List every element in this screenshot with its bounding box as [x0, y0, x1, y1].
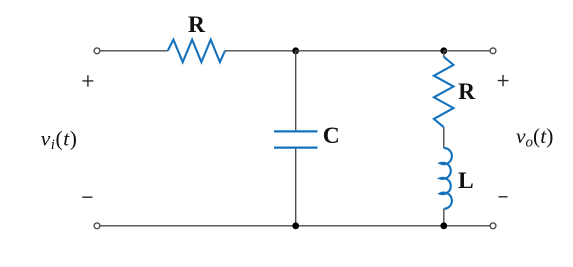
- minus sign (left): [82, 196, 92, 198]
- node (top of capacitor): [292, 47, 299, 54]
- wire bottom rail: [100, 225, 490, 227]
- terminal top-left: [94, 48, 100, 54]
- node (top of RL branch): [440, 47, 447, 54]
- wire top-middle: [225, 50, 296, 52]
- node (bottom of RL branch): [440, 222, 447, 229]
- plus sign (left): [82, 75, 93, 86]
- resistor R (vertical, in RL branch): [434, 57, 454, 127]
- wire (capacitor bottom lead): [295, 149, 297, 226]
- wire top-right-middle: [296, 50, 444, 52]
- capacitor C plates: [274, 131, 318, 147]
- node (bottom of capacitor): [292, 222, 299, 229]
- wire (between R and L): [443, 127, 445, 148]
- wire top-left: [100, 50, 168, 52]
- wire to top-right terminal: [444, 50, 490, 52]
- svg-text:R: R: [458, 79, 476, 105]
- svg-text:L: L: [458, 168, 474, 194]
- terminal top-right: [490, 48, 496, 54]
- wire (node to vertical resistor): [443, 51, 445, 57]
- svg-text:C: C: [323, 123, 340, 149]
- wire (capacitor top lead): [295, 51, 297, 131]
- svg-text:vi(t): vi(t): [41, 126, 78, 153]
- svg-text:vo(t): vo(t): [516, 124, 553, 151]
- resistor R (series, horizontal): [168, 40, 225, 63]
- terminal bottom-left: [94, 223, 100, 229]
- wire (L to bottom node): [443, 209, 445, 226]
- svg-text:R: R: [188, 12, 206, 38]
- plus sign (right): [498, 75, 509, 86]
- inductor L: [440, 148, 452, 209]
- terminal bottom-right: [490, 223, 496, 229]
- minus sign (right): [499, 196, 508, 198]
